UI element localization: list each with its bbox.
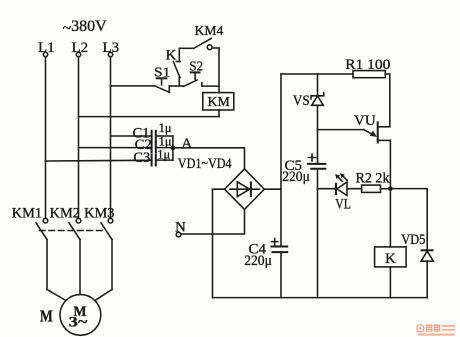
svg-text:K: K bbox=[385, 251, 396, 267]
wire positive bus bbox=[280, 74, 282, 246]
contact KM2 bbox=[50, 205, 81, 294]
node A bbox=[171, 136, 193, 152]
zener diode VS bbox=[293, 74, 324, 164]
contact KM1 bbox=[12, 205, 48, 289]
svg-text:VD5: VD5 bbox=[401, 232, 425, 248]
motor M bbox=[40, 295, 101, 336]
wire KM coil to bottom bbox=[218, 110, 220, 117]
svg-text:1μ: 1μ bbox=[159, 134, 172, 148]
wire R1 to collector rail bbox=[385, 74, 390, 127]
svg-text:220μ: 220μ bbox=[244, 253, 272, 269]
wire control return to L2 bbox=[79, 116, 220, 118]
capacitor C5 bbox=[282, 154, 326, 298]
svg-text:R2 2k: R2 2k bbox=[356, 171, 390, 187]
wire relay K to bottom bus bbox=[389, 267, 391, 298]
wire S1 feed from L3 bbox=[111, 85, 155, 87]
wire emitter to R2 node bbox=[389, 140, 391, 188]
wire node to VD5 branch bbox=[390, 189, 427, 251]
svg-text:VS: VS bbox=[293, 93, 310, 109]
wire L3 vertical bbox=[110, 57, 112, 219]
LED VL bbox=[318, 173, 362, 212]
wire S1 to S2 bbox=[169, 85, 183, 87]
svg-text:KM4: KM4 bbox=[195, 23, 224, 38]
terminal N bbox=[175, 220, 186, 237]
svg-text:KM: KM bbox=[208, 94, 230, 109]
svg-text:A: A bbox=[181, 136, 192, 152]
capacitor C4 bbox=[244, 239, 288, 269]
wire bottom bus bbox=[213, 297, 428, 299]
node emitter junction bbox=[388, 186, 393, 191]
svg-text:L1: L1 bbox=[38, 40, 55, 56]
wire node to relay K bbox=[389, 189, 391, 247]
wire L2 vertical bbox=[78, 57, 80, 219]
contact K bbox=[166, 48, 181, 87]
svg-text:C3: C3 bbox=[133, 150, 150, 166]
wire bridge left output bbox=[213, 189, 225, 297]
wire right vertical of control branch bbox=[218, 48, 220, 93]
terminal L3 bbox=[103, 40, 120, 57]
relay coil K bbox=[375, 247, 407, 267]
pushbutton S1 bbox=[154, 65, 170, 92]
bridge rectifier VD1~VD4 bbox=[225, 169, 265, 210]
coil KM bbox=[203, 93, 234, 110]
resistor R1 bbox=[345, 57, 390, 78]
svg-text:VD1~VD4: VD1~VD4 bbox=[178, 156, 232, 172]
terminal L1 bbox=[38, 40, 55, 57]
svg-text:VU: VU bbox=[354, 113, 376, 129]
wire KM3 to motor bbox=[95, 290, 112, 301]
wire top positive rail bbox=[281, 73, 353, 75]
terminal L2 bbox=[72, 40, 89, 57]
wire bridge right output bbox=[264, 188, 281, 190]
svg-text:1μ: 1μ bbox=[157, 147, 170, 161]
wire node A to bridge bbox=[173, 148, 245, 169]
svg-text:3~: 3~ bbox=[69, 315, 88, 331]
contact KM4 bbox=[179, 23, 223, 50]
capacitor C1 bbox=[111, 121, 173, 142]
wire L1 vertical bbox=[45, 57, 47, 219]
capacitor C2 bbox=[79, 134, 173, 153]
resistor R2 bbox=[356, 171, 391, 193]
transistor VU bbox=[318, 113, 391, 143]
wire S2 to right vertical bbox=[202, 85, 219, 87]
mechanical link dashed bbox=[40, 230, 105, 232]
wire capacitor output bus bbox=[172, 136, 174, 160]
svg-text:KM1: KM1 bbox=[12, 205, 42, 221]
diode VD5 bbox=[401, 232, 433, 297]
capacitor C3 bbox=[46, 147, 173, 166]
pushbutton S2 bbox=[184, 60, 204, 87]
svg-text:VL: VL bbox=[335, 197, 351, 213]
svg-text:1μ: 1μ bbox=[159, 121, 172, 135]
wire bridge bottom to N bbox=[181, 209, 245, 234]
svg-text:KM2: KM2 bbox=[50, 205, 80, 221]
wire KM1 to motor bbox=[47, 290, 66, 301]
svg-text:220μ: 220μ bbox=[282, 169, 310, 185]
svg-text:K: K bbox=[166, 48, 177, 64]
svg-text:L3: L3 bbox=[103, 40, 120, 56]
svg-text:~380V: ~380V bbox=[63, 18, 108, 37]
svg-text:M: M bbox=[40, 307, 53, 326]
watermark logo bbox=[417, 325, 456, 336]
contact KM3 bbox=[84, 205, 114, 289]
